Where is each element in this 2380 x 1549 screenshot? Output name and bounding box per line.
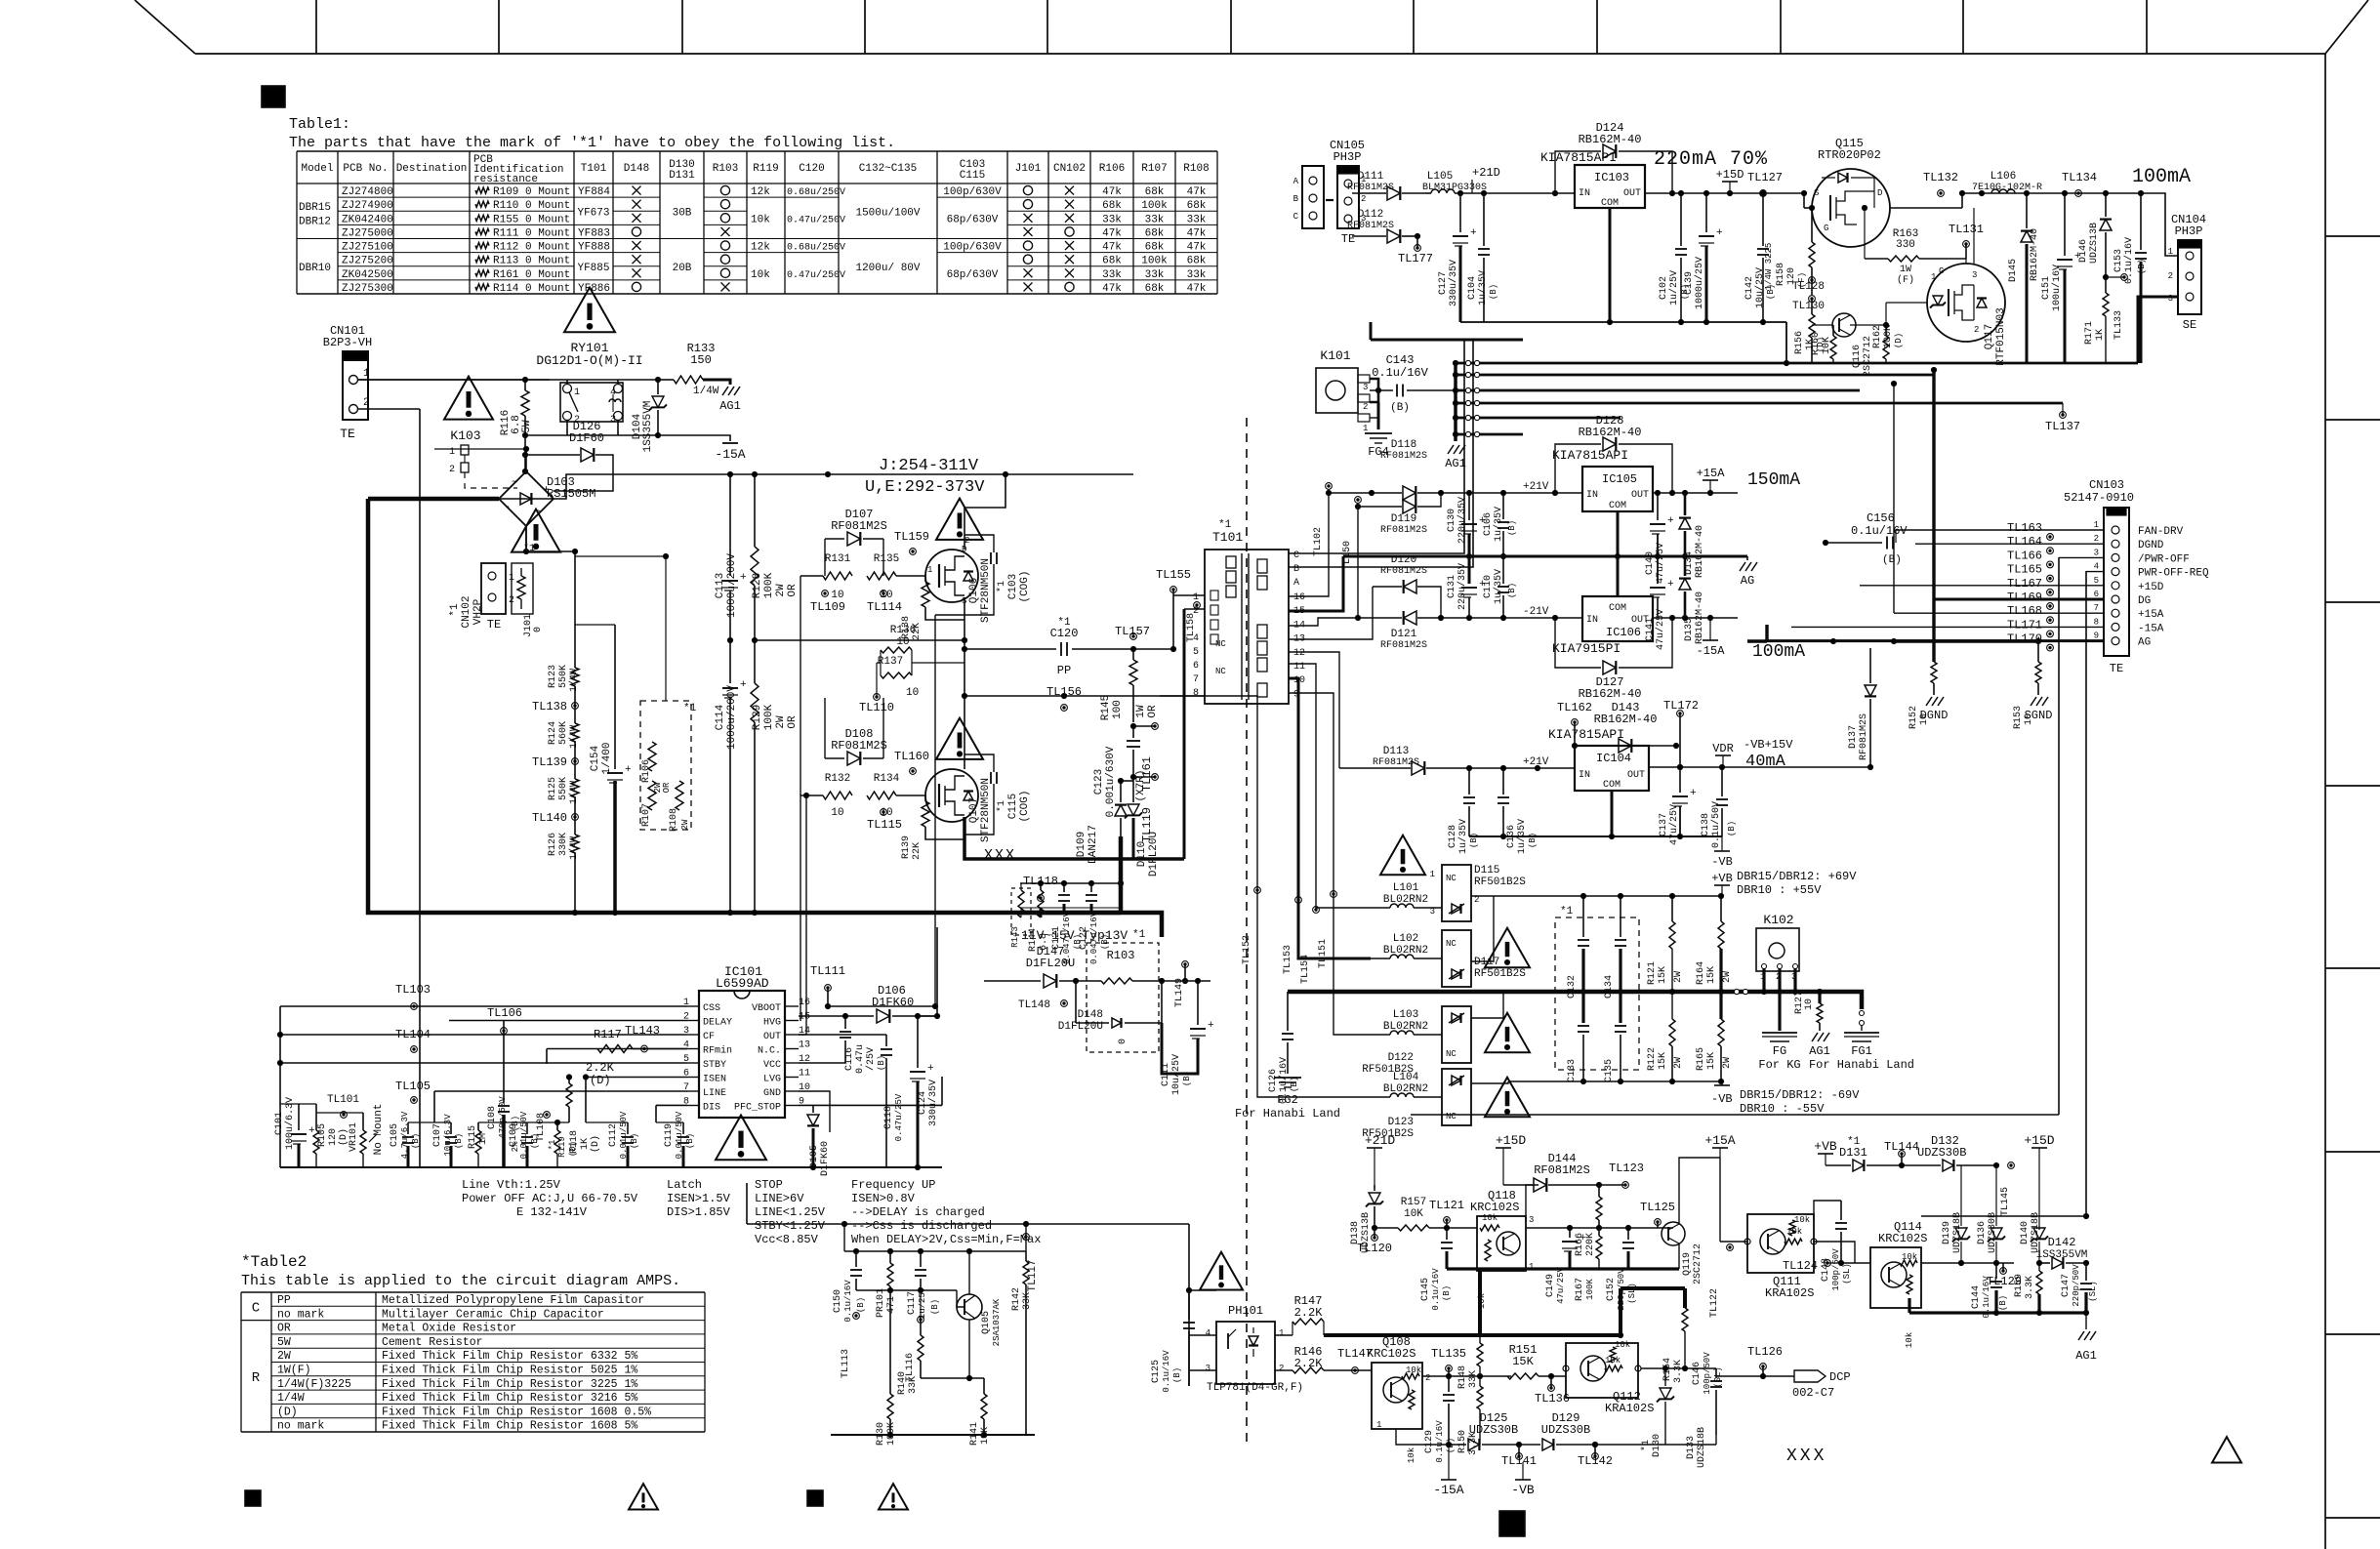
svg-text:DGND: DGND [1920, 709, 1949, 722]
svg-text:0: 0 [1118, 1039, 1128, 1044]
svg-text:NC: NC [1215, 639, 1226, 649]
warning triangle PH101 [1200, 1252, 1243, 1290]
svg-text:C135: C135 [1604, 1059, 1615, 1082]
svg-text:R111 0 Mount: R111 0 Mount [493, 227, 570, 239]
svg-text:K101: K101 [1320, 348, 1350, 363]
svg-text:L102: L102 [1393, 933, 1418, 945]
svg-text:C113: C113 [715, 573, 726, 598]
svg-text:KIA7815API: KIA7815API [1540, 150, 1617, 165]
svg-text:(B): (B) [856, 1297, 866, 1313]
svg-text:47k: 47k [1102, 186, 1122, 198]
warning triangle bottom 1 [629, 1484, 658, 1509]
svg-text:R165: R165 [1696, 1047, 1706, 1071]
svg-text:33k: 33k [1102, 214, 1122, 225]
svg-text:TL159: TL159 [894, 530, 929, 544]
svg-text:100p/50V: 100p/50V [1831, 1248, 1841, 1291]
svg-text:0.47u: 0.47u [855, 1044, 866, 1074]
svg-text:2.2K: 2.2K [1294, 1306, 1324, 1320]
svg-text:ZJ275100: ZJ275100 [342, 242, 393, 254]
svg-text:YF885: YF885 [577, 263, 609, 274]
svg-text:C131: C131 [1447, 575, 1457, 598]
thick VB bus [1288, 990, 1803, 995]
svg-text:OR: OR [787, 584, 799, 597]
wire IC103 COM [1609, 208, 1612, 322]
svg-text:KRC102S: KRC102S [1367, 1347, 1416, 1361]
wire Q115 row [1804, 207, 1812, 209]
svg-text:TL171: TL171 [2007, 618, 2042, 632]
svg-text:ZJ275300: ZJ275300 [342, 283, 393, 295]
svg-text:+15D: +15D [1716, 168, 1744, 182]
svg-text:7: 7 [2094, 603, 2099, 613]
svg-text:Fixed Thick Film Chip Resistor: Fixed Thick Film Chip Resistor 3225 1% [382, 1378, 637, 1391]
svg-text:Fixed Thick Film Chip Resistor: Fixed Thick Film Chip Resistor 5025 1% [382, 1365, 637, 1377]
svg-text:+21V: +21V [1523, 481, 1549, 493]
svg-text:220u/35V: 220u/35V [1457, 497, 1468, 544]
svg-text:NC: NC [1446, 874, 1457, 883]
svg-text:10k: 10k [1905, 1332, 1914, 1348]
wire bottom AG1 bus [1909, 1311, 2086, 1314]
svg-text:330K: 330K [558, 833, 569, 856]
svg-text:BL02RN2: BL02RN2 [1383, 945, 1428, 957]
svg-text:220K: 220K [1585, 1233, 1596, 1256]
svg-text:120: 120 [328, 1128, 339, 1146]
wire CN104 pin3 thick [2138, 297, 2178, 363]
svg-text:100: 100 [1112, 700, 1124, 719]
svg-text:L105: L105 [1427, 171, 1453, 183]
svg-text:K103: K103 [450, 428, 480, 443]
svg-text:E 132-141V: E 132-141V [516, 1205, 588, 1219]
svg-text:68k: 68k [1102, 200, 1122, 212]
svg-text:(B): (B) [1528, 833, 1538, 848]
svg-text:47k: 47k [1187, 283, 1207, 295]
svg-text:0.1u/16V: 0.1u/16V [1372, 366, 1428, 380]
svg-text:-15A: -15A [1697, 644, 1726, 658]
warning triangle L102 [1485, 928, 1530, 967]
wire Q118 to R166 row [1526, 1227, 1599, 1229]
svg-text:0.47u/250V: 0.47u/250V [787, 214, 845, 225]
svg-text:8: 8 [1193, 688, 1199, 699]
svg-text:-VB: -VB [1711, 855, 1733, 869]
svg-text:L101: L101 [1393, 882, 1419, 894]
svg-text:+: + [1470, 227, 1477, 239]
svg-text:DBR10 : +55V: DBR10 : +55V [1737, 883, 1822, 897]
svg-text:10K: 10K [1404, 1208, 1423, 1220]
svg-text:2: 2 [1974, 325, 1979, 335]
wire Q117 gate row [1886, 302, 1927, 304]
svg-text:R164: R164 [1696, 961, 1706, 985]
wire Q119 collector riser [1679, 1158, 1720, 1224]
transistor Q105 2SA1037AK [957, 1294, 982, 1320]
svg-text:68k: 68k [1102, 256, 1122, 267]
svg-text:0: 0 [533, 627, 544, 632]
svg-text:BL02RN2: BL02RN2 [1383, 1083, 1428, 1095]
svg-text:RF501B2S: RF501B2S [1474, 876, 1526, 888]
svg-text:COM: COM [1603, 780, 1621, 791]
svg-text:YF884: YF884 [578, 186, 610, 198]
svg-text:Model: Model [301, 163, 333, 175]
svg-text:1/4W: 1/4W [693, 386, 719, 397]
svg-text:+: + [1690, 788, 1697, 799]
svg-text:RF081M2S: RF081M2S [1380, 451, 1427, 462]
ground SGND [2031, 697, 2036, 706]
svg-text:(B): (B) [930, 1299, 940, 1315]
svg-text:Fixed Thick Film Chip Resistor: Fixed Thick Film Chip Resistor 6332 5% [382, 1350, 637, 1363]
svg-text:C147: C147 [2061, 1274, 2072, 1297]
wire riser T101 pin B [1289, 340, 1473, 567]
wire GND pin [800, 1090, 801, 1092]
svg-text:PWR-OFF-REQ: PWR-OFF-REQ [2138, 568, 2209, 580]
svg-text:Multilayer Ceramic Chip Capaci: Multilayer Ceramic Chip Capacitor [382, 1308, 604, 1321]
svg-text:R119: R119 [753, 163, 778, 175]
svg-text:GND: GND [763, 1088, 781, 1099]
ground FG2 [1274, 1077, 1301, 1079]
svg-text:RTF015N03: RTF015N03 [1995, 307, 2007, 365]
svg-text:R110 0 Mount: R110 0 Mount [493, 200, 570, 212]
svg-text:(D): (D) [1894, 333, 1904, 348]
wire CN103 pin rows [1896, 529, 2104, 531]
svg-text:+: + [740, 572, 747, 584]
svg-text:NC: NC [1446, 1049, 1457, 1059]
wire thick bus to transformer [1121, 913, 1162, 937]
svg-text:ISEN>1.5V: ISEN>1.5V [667, 1192, 731, 1205]
svg-text:1/4W: 1/4W [277, 1392, 305, 1405]
wire LINE row [434, 1090, 687, 1092]
svg-text:Q107: Q107 [968, 797, 980, 823]
svg-text:IC106: IC106 [1606, 626, 1641, 639]
svg-text:16: 16 [1293, 592, 1305, 603]
svg-text:2: 2 [2094, 534, 2099, 544]
svg-text:N.C.: N.C. [758, 1046, 781, 1057]
svg-text:330u/35V: 330u/35V [927, 1080, 939, 1126]
svg-text:33K: 33K [908, 1376, 919, 1394]
svg-text:PP: PP [277, 1294, 291, 1307]
svg-text:1/400: 1/400 [601, 742, 613, 774]
svg-text:R161 0 Mount: R161 0 Mount [493, 269, 570, 281]
warning triangle Q106 [936, 499, 983, 540]
svg-text:R106: R106 [1099, 163, 1125, 175]
svg-text:TL111: TL111 [810, 964, 845, 978]
svg-text:-VB: -VB [1711, 1092, 1733, 1106]
svg-text:1u/35V: 1u/35V [1457, 819, 1469, 854]
svg-text:2SC2712: 2SC2712 [1693, 1243, 1703, 1284]
svg-text:15: 15 [799, 1012, 810, 1023]
svg-text:DBR10 : -55V: DBR10 : -55V [1740, 1102, 1825, 1116]
svg-text:0.47u/25V: 0.47u/25V [894, 1093, 904, 1141]
svg-text:RB162M-40: RB162M-40 [2030, 228, 2040, 281]
svg-text:KRC102S: KRC102S [1470, 1201, 1519, 1214]
svg-text:ZK042500: ZK042500 [342, 269, 393, 281]
svg-text:D: D [1877, 188, 1882, 198]
svg-text:11: 11 [799, 1069, 810, 1080]
svg-text:*Table2: *Table2 [241, 1253, 307, 1271]
svg-text:R109 0 Mount: R109 0 Mount [493, 186, 570, 198]
Table1 grid [297, 151, 1217, 294]
svg-text:TL123: TL123 [1609, 1162, 1644, 1175]
svg-text:47k: 47k [1187, 227, 1207, 239]
svg-text:IC103: IC103 [1594, 171, 1629, 184]
svg-text:C141: C141 [1645, 618, 1656, 641]
svg-text:2: 2 [1361, 194, 1366, 204]
svg-text:2W: 2W [1673, 971, 1684, 983]
svg-text:COM: COM [1609, 603, 1626, 614]
svg-text:TL154: TL154 [1300, 955, 1311, 984]
thick bus left loop [368, 499, 1121, 913]
wire T101 pin2 riser [1183, 609, 1186, 859]
svg-text:C123: C123 [1093, 769, 1105, 795]
svg-text:TL101: TL101 [327, 1094, 359, 1106]
svg-text:+21D: +21D [1365, 1133, 1395, 1148]
wire Q112 top thick [1621, 1286, 1685, 1290]
svg-text:TL109: TL109 [810, 600, 845, 614]
ground AG1 bottom [2085, 1313, 2087, 1329]
svg-text:KRA102S: KRA102S [1765, 1286, 1814, 1300]
wire riser T101 pin C [1289, 340, 1464, 553]
svg-text:D137: D137 [1848, 725, 1859, 749]
svg-text:R132: R132 [825, 773, 850, 785]
svg-text:G: G [1939, 266, 1944, 276]
svg-text:IN: IN [1586, 490, 1598, 501]
svg-text:68k: 68k [1145, 242, 1165, 254]
svg-text:R150: R150 [1457, 1430, 1468, 1453]
svg-text:10k: 10k [1902, 1252, 1917, 1262]
svg-text:L6599AD: L6599AD [716, 976, 769, 991]
svg-text:(B): (B) [411, 1133, 421, 1149]
svg-text:550K: 550K [558, 665, 569, 688]
svg-text:RF081M2S: RF081M2S [1380, 525, 1427, 536]
svg-text:TL152: TL152 [1242, 935, 1252, 964]
svg-text:1: 1 [574, 387, 580, 398]
warning triangle Q107 [936, 718, 983, 759]
svg-text:RF081M2S: RF081M2S [1373, 757, 1419, 768]
svg-text:C112: C112 [608, 1123, 619, 1147]
svg-text:15K: 15K [1658, 1052, 1668, 1070]
svg-text:+: + [1580, 1233, 1586, 1244]
svg-text:D136: D136 [1977, 1221, 1988, 1244]
svg-text:no mark: no mark [277, 1420, 324, 1433]
svg-text:C114: C114 [715, 704, 726, 730]
wire -VB rail [1508, 1080, 1722, 1082]
warning triangle D122 [1485, 1013, 1530, 1052]
svg-text:-15A: -15A [1433, 1483, 1463, 1497]
svg-text:100mA: 100mA [1752, 642, 1805, 662]
svg-text:1: 1 [1279, 1328, 1284, 1338]
svg-text:TL160: TL160 [894, 750, 929, 763]
wire K102 pins [1762, 968, 1765, 992]
wire IC101 section bottom outline [747, 1223, 1189, 1225]
svg-text:(SL): (SL) [1713, 1366, 1723, 1388]
svg-text:-15A: -15A [2138, 623, 2164, 634]
svg-text:*1: *1 [1640, 1440, 1652, 1451]
svg-text:3: 3 [1529, 1215, 1534, 1225]
svg-text:R: R [252, 1370, 261, 1386]
wire left rail IC101 [279, 1006, 281, 1167]
op-amp IC101 L6599AD [699, 991, 785, 1118]
svg-text:DBR10: DBR10 [299, 263, 331, 274]
svg-text:T101: T101 [1212, 530, 1243, 545]
wire C120 to T101 pin1 [1133, 648, 1173, 650]
svg-text:2: 2 [1279, 1364, 1284, 1373]
svg-text:Table1:: Table1: [289, 116, 350, 133]
svg-text:For Hanabi Land: For Hanabi Land [1235, 1107, 1340, 1121]
wire DG riser [1932, 370, 1935, 599]
svg-text:TL169: TL169 [2007, 591, 2042, 604]
svg-text:TL144: TL144 [1884, 1140, 1919, 1154]
border ruler right ticks [2325, 236, 2380, 1518]
svg-text:0.1u/16V: 0.1u/16V [1162, 1350, 1171, 1393]
svg-text:*1: *1 [1560, 906, 1574, 917]
svg-text:CN102: CN102 [1053, 163, 1086, 175]
svg-text:*1: *1 [1132, 929, 1146, 941]
svg-text:330: 330 [1896, 239, 1915, 251]
svg-text:TL132: TL132 [1923, 171, 1958, 184]
svg-text:0.47u/250V: 0.47u/250V [787, 269, 845, 281]
svg-text:-VB: -VB [1511, 1483, 1535, 1497]
svg-text:C144: C144 [1971, 1285, 1982, 1309]
svg-text:XXX: XXX [984, 847, 1016, 864]
svg-text:TL117: TL117 [1027, 1259, 1039, 1291]
svg-text:1000u/25V: 1000u/25V [1694, 257, 1705, 309]
svg-text:10: 10 [831, 807, 843, 819]
svg-text:330u/35V: 330u/35V [1448, 260, 1459, 306]
wire Q119 emitter bus [1447, 1267, 1679, 1270]
svg-text:100p/630V: 100p/630V [943, 242, 1002, 254]
svg-text:D142: D142 [2048, 1236, 2076, 1249]
svg-text:A: A [1293, 177, 1299, 186]
svg-text:R157: R157 [1401, 1197, 1426, 1208]
svg-text:47k: 47k [1102, 283, 1122, 295]
svg-text:+15D: +15D [1496, 1133, 1526, 1148]
svg-text:D115: D115 [1474, 865, 1499, 876]
wire PWR-OFF-REQ riser down [2085, 571, 2087, 1216]
svg-text:IN: IN [1579, 188, 1590, 199]
svg-text:R117: R117 [594, 1028, 622, 1041]
svg-text:T101: T101 [581, 163, 607, 175]
svg-text:2W: 2W [1722, 1057, 1733, 1069]
svg-text:B: B [1293, 194, 1299, 204]
svg-text:TL114: TL114 [867, 600, 902, 614]
wire Q107 source down thick [964, 817, 1184, 859]
wire bridge bottom / thick return bus [525, 526, 527, 551]
svg-text:C138: C138 [1701, 813, 1711, 836]
svg-text:TL164: TL164 [2007, 535, 2042, 549]
svg-text:Metallized Polypropylene Film: Metallized Polypropylene Film Capasitor [382, 1294, 644, 1307]
svg-text:R114 0 Mount: R114 0 Mount [493, 283, 570, 295]
svg-text:DCP: DCP [1829, 1370, 1851, 1384]
svg-text:UDZS30B: UDZS30B [1469, 1423, 1518, 1437]
svg-text:R113 0 Mount: R113 0 Mount [493, 256, 570, 267]
svg-text:TL139: TL139 [532, 755, 567, 769]
svg-text:Fixed Thick Film Chip Resistor: Fixed Thick Film Chip Resistor 1608 5% [382, 1420, 637, 1433]
svg-text:D123: D123 [1388, 1117, 1414, 1128]
svg-text:20B: 20B [673, 263, 692, 274]
svg-text:RF081M2S: RF081M2S [1859, 713, 1869, 760]
svg-text:D140: D140 [2020, 1221, 2031, 1244]
svg-text:C150: C150 [833, 1289, 843, 1313]
border ruler right line [2324, 54, 2326, 1549]
wire Q108 collector row [1422, 1375, 1511, 1377]
svg-text:C105: C105 [390, 1123, 400, 1147]
svg-text:C103: C103 [1007, 574, 1019, 599]
wire bridge to CN102 [525, 526, 527, 551]
svg-text:-->Css is discharged: -->Css is discharged [851, 1219, 992, 1233]
svg-text:VR101: VR101 [349, 1122, 359, 1152]
svg-text:+15A: +15A [1704, 1133, 1735, 1148]
svg-text:47u/25V: 47u/25V [1556, 1267, 1566, 1304]
svg-text:PP: PP [1057, 664, 1071, 677]
svg-text:B: B [1293, 564, 1299, 575]
svg-text:(X7R): (X7R) [1135, 769, 1147, 801]
svg-text:D113: D113 [1383, 746, 1409, 757]
wire TL156 row to T101 [1203, 695, 1205, 697]
svg-text:VDR: VDR [1712, 742, 1734, 755]
svg-text:FG1: FG1 [1851, 1044, 1872, 1058]
ground FG4 [1365, 432, 1392, 434]
svg-text:SGND: SGND [2025, 709, 2053, 722]
svg-text:D112: D112 [1358, 209, 1383, 221]
svg-text:12: 12 [1293, 648, 1305, 659]
svg-text:CSS: CSS [703, 1003, 720, 1014]
svg-text:C129: C129 [1424, 1430, 1435, 1453]
svg-text:C149: C149 [1545, 1274, 1556, 1297]
svg-text:C120: C120 [799, 163, 824, 175]
wire CN101 pin1 [358, 379, 550, 381]
svg-text:0.047u/16V: 0.047u/16V [1089, 911, 1099, 964]
ground AG1 bundle [1448, 445, 1454, 454]
svg-text:100k: 100k [1141, 200, 1168, 212]
svg-text:47u/25V: 47u/25V [1655, 543, 1666, 584]
svg-text:OUT: OUT [1627, 770, 1645, 781]
svg-text:C156: C156 [1867, 511, 1895, 525]
svg-text:AG1: AG1 [2075, 1349, 2097, 1363]
svg-text:(B): (B) [1882, 554, 1902, 566]
svg-text:TL106: TL106 [487, 1006, 522, 1020]
svg-text:resistance: resistance [473, 174, 538, 185]
svg-text:D131: D131 [1839, 1146, 1867, 1160]
svg-text:150mA: 150mA [1747, 470, 1800, 490]
svg-text:10K: 10K [1822, 337, 1832, 354]
svg-text:TL177: TL177 [1398, 252, 1433, 265]
svg-text:RTR020P02: RTR020P02 [1818, 148, 1881, 162]
wire HVG to Q106 gate [800, 576, 801, 1021]
svg-text:D122: D122 [1388, 1052, 1414, 1064]
svg-text:2: 2 [2168, 271, 2173, 281]
svg-text:VBOOT: VBOOT [752, 1003, 781, 1014]
svg-text:D131: D131 [669, 170, 695, 182]
svg-text:2: 2 [449, 465, 455, 475]
svg-text:TL148: TL148 [1018, 999, 1050, 1011]
svg-text:0.68u/250V: 0.68u/250V [787, 186, 845, 198]
svg-text:100K: 100K [763, 704, 775, 730]
transistor Q107 STF28NM50N [925, 769, 978, 822]
svg-text:+15D: +15D [2024, 1133, 2054, 1148]
svg-text:Fixed Thick Film Chip Resistor: Fixed Thick Film Chip Resistor 1608 0.5% [382, 1406, 651, 1418]
svg-text:RB162M-40: RB162M-40 [1579, 687, 1642, 701]
svg-text:52147-0910: 52147-0910 [2064, 491, 2134, 505]
svg-text:TL162: TL162 [1557, 701, 1592, 714]
svg-text:(SL): (SL) [1842, 1263, 1852, 1284]
svg-text:C126: C126 [1268, 1069, 1279, 1092]
svg-text:1500u/100V: 1500u/100V [855, 207, 920, 219]
svg-text:10k: 10k [1482, 1213, 1498, 1223]
wire R147 thick row [1324, 1333, 1480, 1337]
svg-text:OUT: OUT [1623, 188, 1641, 199]
svg-text:D139: D139 [1942, 1221, 1952, 1244]
svg-text:+VB: +VB [1814, 1139, 1837, 1154]
svg-text:FG: FG [1773, 1044, 1786, 1058]
svg-text:D110: D110 [1136, 841, 1148, 867]
svg-text:Line Vth:1.25V: Line Vth:1.25V [462, 1178, 561, 1192]
svg-text:ZJ275000: ZJ275000 [342, 227, 393, 239]
